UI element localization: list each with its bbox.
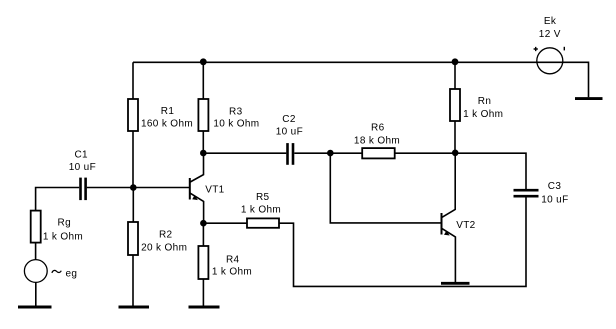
svg-text:VT2: VT2 <box>456 220 475 231</box>
svg-text:eg: eg <box>66 268 78 279</box>
svg-text:C2: C2 <box>282 114 296 125</box>
svg-text:1 k Ohm: 1 k Ohm <box>212 267 252 278</box>
svg-text:12 V: 12 V <box>539 29 561 40</box>
svg-text:18 k Ohm: 18 k Ohm <box>354 135 400 146</box>
svg-text:C3: C3 <box>548 181 562 192</box>
svg-text:20 k Ohm: 20 k Ohm <box>141 243 187 254</box>
svg-text:160 k Ohm: 160 k Ohm <box>141 118 193 129</box>
svg-text:Rn: Rn <box>478 96 491 107</box>
svg-text:R5: R5 <box>256 192 270 203</box>
svg-text:VT1: VT1 <box>205 185 224 196</box>
svg-text:R1: R1 <box>161 106 175 117</box>
svg-text:R2: R2 <box>159 229 173 240</box>
svg-text:10 k Ohm: 10 k Ohm <box>213 118 259 129</box>
svg-text:Ek: Ek <box>544 16 557 27</box>
svg-text:1 k Ohm: 1 k Ohm <box>43 232 83 243</box>
svg-text:10 uF: 10 uF <box>276 127 303 138</box>
svg-text:R4: R4 <box>226 255 240 266</box>
svg-text:10 uF: 10 uF <box>69 162 96 173</box>
svg-text:Rg: Rg <box>58 218 71 229</box>
svg-text:R3: R3 <box>229 106 243 117</box>
svg-text:R6: R6 <box>371 123 385 134</box>
svg-text:1 k Ohm: 1 k Ohm <box>463 109 503 120</box>
svg-text:1 k Ohm: 1 k Ohm <box>241 204 281 215</box>
svg-text:C1: C1 <box>74 150 88 161</box>
svg-text:10 uF: 10 uF <box>541 195 568 206</box>
